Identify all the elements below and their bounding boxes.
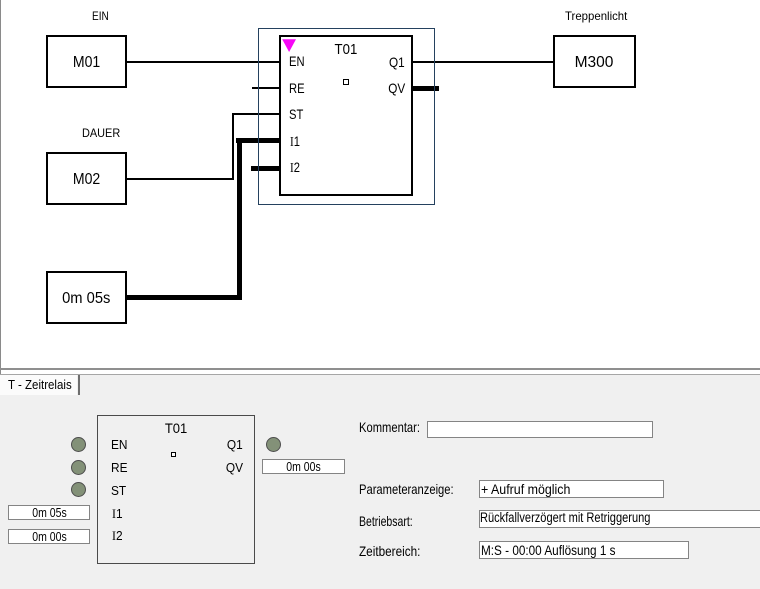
- preview pin EN: [111, 439, 128, 452]
- LED EN: [71, 437, 86, 452]
- marker M01: [46, 35, 127, 88]
- wire I1 entry thick: [236, 138, 279, 143]
- wire RE stub: [252, 87, 279, 89]
- canvas left border: [0, 0, 1, 589]
- tab strip top line: [0, 374, 760, 375]
- pin EN: [289, 54, 308, 68]
- preview block T01: [97, 415, 255, 564]
- label Treppenlicht: [565, 10, 631, 23]
- field Parameteranzeige: [479, 480, 664, 498]
- pin QV: [340, 81, 405, 95]
- wire Q1 to M300: [413, 61, 553, 63]
- wire M01 to EN: [126, 61, 279, 63]
- preview pin Q1: [180, 439, 243, 452]
- pin RE: [289, 81, 308, 95]
- selection frame: [258, 28, 435, 205]
- marker M300: [553, 35, 636, 88]
- field Betriebsart: [479, 510, 760, 528]
- LED RE: [71, 460, 86, 475]
- pin ST: [289, 107, 307, 121]
- label Parameteranzeige: [359, 482, 477, 497]
- selection marker triangle: [282, 39, 297, 53]
- wire M02 to ST horizontal: [126, 178, 234, 180]
- wire M02 to ST vertical: [232, 113, 234, 180]
- function block T01: [279, 35, 413, 196]
- wire ST entry: [232, 113, 279, 115]
- marker M02: [46, 152, 127, 205]
- field Kommentar: [427, 421, 653, 438]
- LED Q1: [266, 437, 281, 452]
- preview pin QV: [180, 462, 243, 475]
- preview pin ST: [111, 485, 127, 498]
- tab separator: [78, 375, 80, 395]
- field I2 value 0m 00s: [8, 529, 90, 544]
- preview pin I1: [112, 508, 123, 521]
- label Betriebsart: [359, 514, 431, 529]
- preview title T01: [97, 421, 255, 435]
- label Kommentar: [359, 420, 435, 435]
- wire I2 stub thick: [251, 166, 279, 171]
- breakpoint square: [343, 79, 349, 85]
- preview pin I2: [112, 530, 123, 543]
- pin I1: [290, 134, 302, 150]
- field QV value 0m 00s: [262, 459, 345, 474]
- wire I1 vertical thick: [237, 138, 242, 300]
- wire QV stub thick: [413, 86, 439, 91]
- label DAUER: [82, 127, 124, 140]
- label EIN: [92, 10, 112, 23]
- properties panel: [0, 395, 760, 589]
- preview pin RE: [111, 462, 128, 475]
- preview breakpoint square: [171, 452, 176, 457]
- block title T01: [279, 42, 413, 57]
- pin I2: [290, 160, 302, 176]
- constant 0m 05s: [46, 271, 127, 324]
- LED ST: [71, 482, 86, 497]
- field I1 value 0m 05s: [8, 505, 90, 520]
- wire 0m05s to I1 horizontal thick: [126, 295, 242, 300]
- active tab T - Zeitrelais: [0, 375, 77, 395]
- tab strip: [0, 375, 760, 395]
- canvas bottom border: [0, 368, 760, 370]
- field Zeitbereich: [479, 541, 689, 559]
- label Zeitbereich: [359, 544, 432, 559]
- pin Q1: [340, 55, 405, 69]
